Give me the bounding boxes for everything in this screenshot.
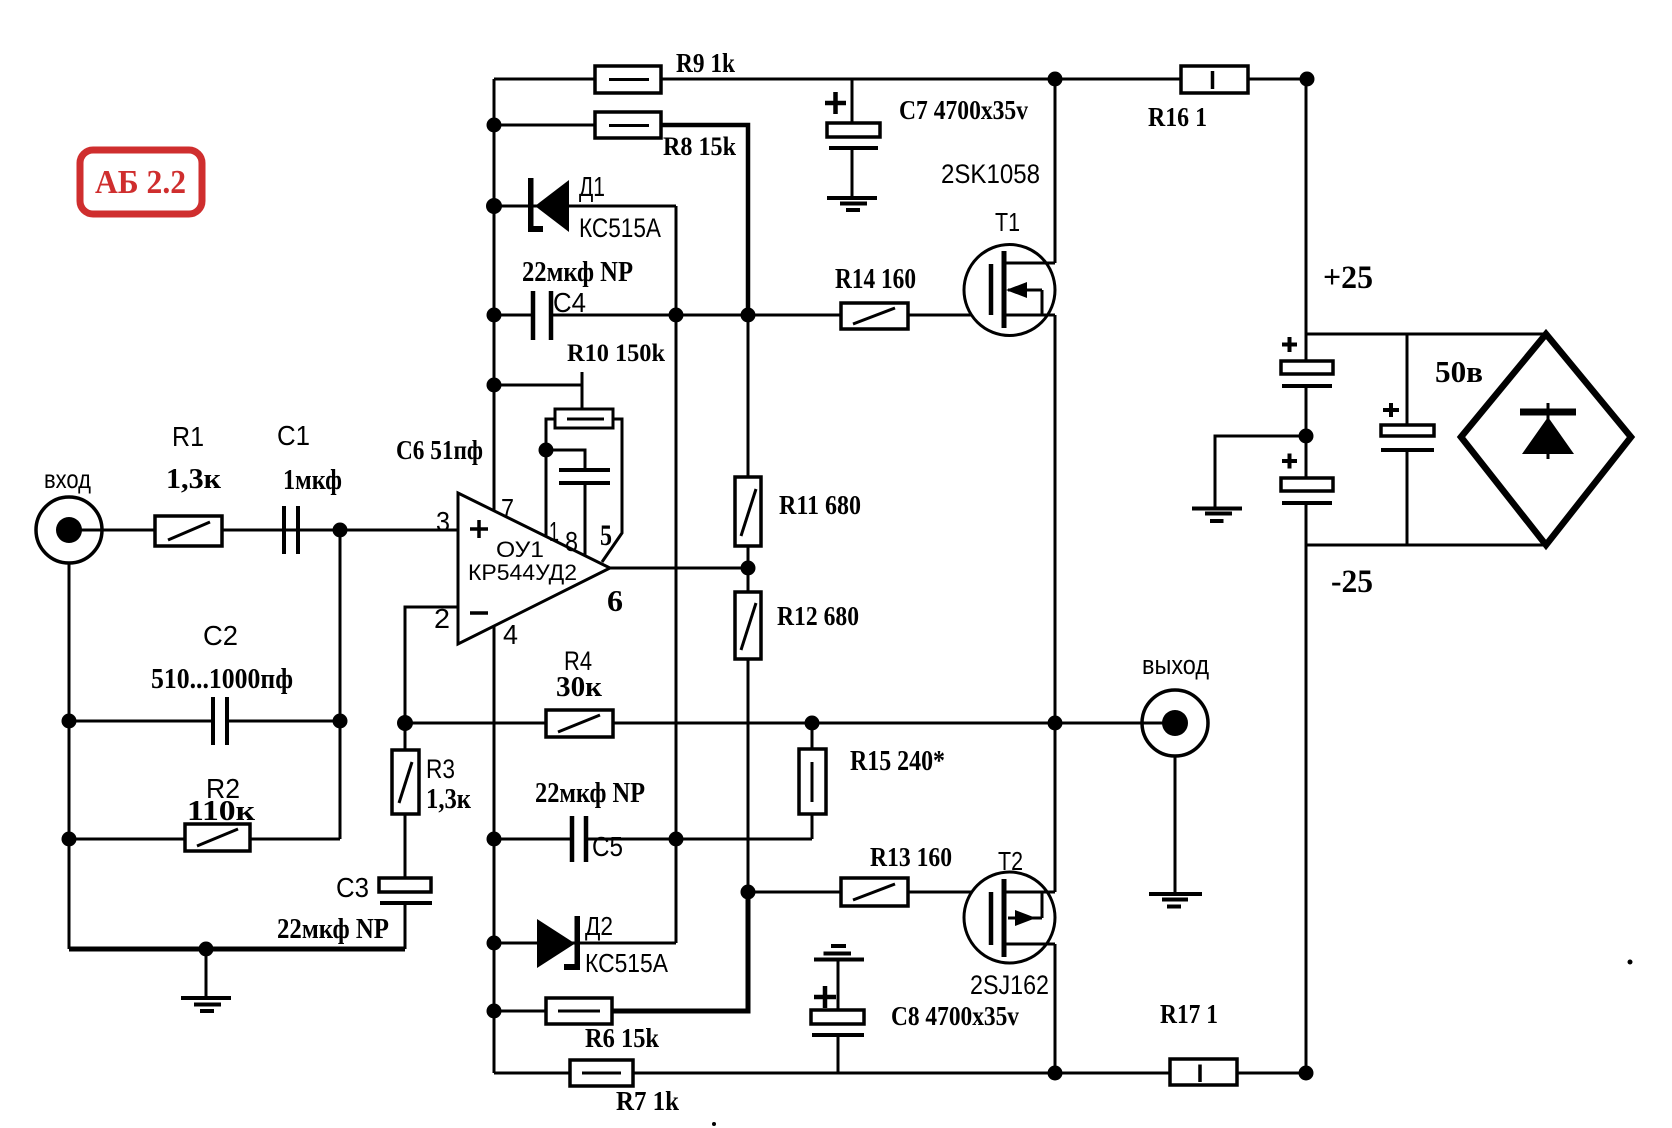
wire R3 to C3: [404, 814, 407, 878]
svg-text:R14 160: R14 160: [835, 264, 916, 295]
svg-text:вход: вход: [44, 464, 91, 494]
wire bottom ground row: [69, 947, 405, 952]
junction R8 on left bus: [487, 118, 502, 133]
wire feedback/output row: [405, 722, 1142, 725]
transistor T1 2SK1058: [964, 245, 1055, 336]
wire R2 row: [69, 838, 340, 841]
capacitor C5: [572, 816, 586, 862]
svg-text:C1: C1: [277, 420, 310, 451]
wire R11-R12 junction segment: [747, 546, 750, 592]
svg-text:C8 4700x35v: C8 4700x35v: [891, 1001, 1019, 1031]
svg-text:C4: C4: [553, 287, 586, 318]
resistor R16: [1181, 66, 1248, 93]
junction R2 left: [62, 832, 77, 847]
transistor T2 2SJ162: [964, 872, 1055, 963]
svg-text:R15 240*: R15 240*: [850, 746, 945, 777]
svg-text:Д2: Д2: [585, 911, 613, 941]
wire D2 row: [494, 942, 676, 945]
wire T1 drain lead: [1054, 79, 1057, 263]
svg-text:3: 3: [436, 506, 450, 537]
wire supply mid vertical: [1305, 388, 1308, 478]
wire pin 8 lead: [584, 483, 587, 555]
bridge filter capacitor C11: [1381, 403, 1434, 450]
capacitor C3: [379, 878, 432, 903]
junction R14/R8/R11 node: [741, 308, 756, 323]
svg-text:C6 51пф: C6 51пф: [396, 435, 483, 465]
wire R10 top branch: [494, 372, 582, 409]
svg-text:-25: -25: [1331, 564, 1373, 600]
wire supply cap row bottom: [1306, 544, 1546, 547]
wire input ground stub: [205, 949, 208, 998]
svg-text:R13 160: R13 160: [870, 842, 952, 872]
junction op-amp output node: [741, 561, 756, 576]
junction T2 source on bottom row: [1048, 1066, 1063, 1081]
wire supply mid ground branch: [1215, 436, 1306, 508]
input connector вход: [36, 497, 104, 563]
wire R8 to R14 row thick: [661, 125, 748, 315]
wire pin 5 loop: [602, 419, 622, 562]
svg-text:22мкф NP: 22мкф NP: [522, 257, 633, 288]
bridge rectifier 50в: [1461, 334, 1631, 545]
ground output: [1149, 894, 1202, 907]
wire input down bus: [68, 530, 71, 949]
wire R8 branch: [494, 124, 595, 127]
junction C2 right: [333, 714, 348, 729]
wire T2 drain lead: [1054, 723, 1057, 892]
resistor R1: [155, 516, 222, 546]
wire C8 lower stub: [837, 1036, 840, 1073]
wire bridge cap top stub: [1406, 334, 1409, 425]
svg-text:1,3к: 1,3к: [426, 784, 472, 815]
svg-text:КС515А: КС515А: [585, 948, 669, 978]
wire R6 left lead: [494, 1010, 546, 1013]
resistor R3: [392, 750, 419, 814]
junction C4 right: [669, 308, 684, 323]
resistor R14: [841, 303, 908, 329]
zener diode D2: [537, 916, 580, 970]
wire left bus upper (pin 7 branch): [493, 79, 496, 511]
svg-text:6: 6: [607, 583, 623, 618]
wire input to pin 3: [103, 529, 458, 532]
wire bottom negative row: [494, 1072, 1306, 1075]
capacitor C1: [284, 506, 298, 554]
resistor R13: [841, 878, 908, 906]
svg-text:T2: T2: [998, 846, 1023, 876]
wire C3 to ground row: [404, 903, 407, 949]
svg-text:7: 7: [501, 493, 514, 524]
wire R11 top lead: [747, 315, 750, 477]
svg-text:R11 680: R11 680: [779, 490, 861, 520]
capacitor C4: [533, 291, 551, 340]
junction R6 on left bus: [487, 1004, 502, 1019]
wire bridge cap bottom stub: [1406, 450, 1409, 545]
svg-text:R10 150k: R10 150k: [567, 340, 665, 367]
wire C8 upper stub: [837, 959, 840, 1010]
svg-text:КС515А: КС515А: [579, 213, 661, 243]
svg-text:1,3к: 1,3к: [166, 463, 221, 495]
wire C4/R14 gate row right: [551, 314, 991, 317]
svg-text:2: 2: [434, 603, 450, 634]
speck bottom center: [712, 1122, 716, 1126]
svg-text:R6 15k: R6 15k: [585, 1023, 659, 1053]
svg-text:R9 1k: R9 1k: [676, 48, 735, 78]
wire R15 top stub: [811, 723, 814, 749]
svg-text:C3: C3: [336, 872, 369, 903]
wire C6 top tap: [546, 450, 585, 470]
resistor R2: [185, 824, 250, 851]
wire R6 right lead thick: [612, 892, 748, 1011]
svg-text:АБ 2.2: АБ 2.2: [95, 164, 186, 201]
trimmer R10: [555, 409, 613, 428]
wire C2 row left: [69, 720, 213, 723]
wire supply lower vertical: [1305, 505, 1308, 545]
wire C5 row left: [494, 838, 572, 841]
wire right bus -25: [1305, 545, 1308, 1073]
resistor R15: [799, 749, 826, 814]
wire D1 row: [494, 205, 676, 208]
junction C5 right: [669, 832, 684, 847]
svg-text:ОУ1: ОУ1: [496, 537, 544, 562]
junction C4 on left bus: [487, 308, 502, 323]
junction C5 left: [487, 832, 502, 847]
wire right bus +25: [1305, 79, 1308, 361]
svg-text:1: 1: [549, 516, 559, 547]
wire R13 gate row: [748, 891, 991, 894]
wire C2 row right: [227, 720, 340, 723]
ground supply midpoint: [1192, 509, 1242, 522]
supply capacitor C9 upper: [1281, 337, 1333, 386]
junction T1 drain on top rail: [1048, 72, 1063, 87]
svg-text:Д1: Д1: [579, 171, 605, 202]
svg-text:5: 5: [600, 519, 612, 552]
wire pin 2 lead: [405, 607, 458, 723]
output connector выход: [1142, 690, 1208, 756]
junction R3/R4/pin2 node: [397, 715, 413, 731]
svg-text:R16 1: R16 1: [1148, 102, 1207, 132]
svg-text:R1: R1: [172, 421, 204, 452]
svg-text:T1: T1: [995, 207, 1020, 237]
capacitor C8: [811, 986, 864, 1035]
svg-text:выход: выход: [1142, 650, 1209, 680]
wire R3 top stub: [404, 723, 407, 750]
svg-text:R12 680: R12 680: [777, 601, 859, 631]
svg-text:1мкф: 1мкф: [283, 464, 342, 496]
wire T1 source lead: [1054, 315, 1057, 723]
resistor R11: [735, 477, 761, 546]
svg-text:8: 8: [565, 526, 578, 557]
junction C1 node: [333, 523, 348, 538]
resistor R4: [546, 710, 613, 737]
svg-text:R7 1k: R7 1k: [616, 1086, 679, 1116]
resistor R7: [570, 1060, 633, 1086]
supply capacitor C10 lower: [1281, 454, 1333, 504]
svg-text:C7 4700x35v: C7 4700x35v: [899, 95, 1028, 125]
junction D2 on left bus: [487, 936, 502, 951]
svg-text:КР544УД2: КР544УД2: [468, 560, 577, 585]
wire T2 source lead: [1054, 944, 1057, 1073]
ground input row: [181, 998, 231, 1011]
svg-text:50в: 50в: [1435, 354, 1483, 389]
svg-text:510...1000пф: 510...1000пф: [151, 663, 293, 695]
ground C8 (inverted): [814, 946, 864, 960]
wire C7 top stub: [851, 79, 854, 123]
ground C7: [827, 198, 877, 210]
resistor R8: [595, 112, 661, 138]
wire R12 bottom lead: [747, 659, 750, 892]
junction C6 tap on pin1 wire: [539, 443, 554, 458]
svg-text:2SJ162: 2SJ162: [970, 970, 1049, 1000]
svg-text:110к: 110к: [187, 796, 256, 827]
resistor R9: [595, 66, 661, 93]
junction D1 on left bus: [486, 198, 502, 214]
junction C2 left: [62, 714, 77, 729]
capacitor C2: [213, 697, 227, 745]
svg-text:22мкф NP: 22мкф NP: [535, 778, 645, 809]
zener diode D1: [528, 178, 569, 232]
wire C7 ground stub: [851, 148, 854, 198]
wire top rail +supply row: [494, 78, 1306, 81]
capacitor C7: [825, 92, 880, 148]
wire R15 bottom lead: [811, 814, 814, 839]
svg-text:4: 4: [503, 619, 518, 650]
wire C1 node vertical: [339, 530, 342, 839]
svg-text:2SK1058: 2SK1058: [941, 159, 1040, 189]
svg-text:C5: C5: [592, 831, 623, 862]
svg-text:30к: 30к: [556, 671, 602, 703]
wire C5 row right: [586, 838, 812, 841]
wire supply cap row top: [1306, 333, 1546, 336]
wire output ground stub: [1174, 757, 1177, 894]
svg-text:R3: R3: [426, 754, 455, 784]
junction supply midpoint: [1299, 429, 1314, 444]
svg-text:+25: +25: [1323, 260, 1373, 296]
op-amp U1 КР544УД2: [458, 493, 610, 644]
svg-text:R17 1: R17 1: [1160, 999, 1218, 1029]
junction ground row tap: [199, 942, 214, 957]
junction R12/R13/R6 node: [741, 885, 756, 900]
junction output/T1-T2 bus: [1048, 716, 1063, 731]
junction top rail right end: [1300, 72, 1315, 87]
svg-text:R8 15k: R8 15k: [663, 132, 736, 161]
svg-text:C2: C2: [203, 620, 238, 651]
junction R10 on left bus: [487, 378, 502, 393]
junction R15 top: [805, 716, 820, 731]
svg-text:22мкф NP: 22мкф NP: [277, 914, 389, 945]
resistor R17: [1170, 1059, 1237, 1085]
junction bottom row right end: [1299, 1066, 1314, 1081]
wire op-amp output to R11/R12: [610, 567, 748, 570]
resistor R6: [546, 998, 612, 1024]
wire D1-D2 loop vertical: [675, 206, 678, 943]
speck right edge: [1628, 960, 1633, 965]
wire R10 left lead to pin 1: [546, 419, 555, 536]
capacitor C6: [559, 470, 610, 483]
wire left bus lower (pin 4 branch): [493, 626, 496, 1073]
resistor R12: [735, 592, 761, 659]
title box АБ 2.2: [80, 150, 202, 214]
wire C4/R14 gate row left: [494, 314, 533, 317]
